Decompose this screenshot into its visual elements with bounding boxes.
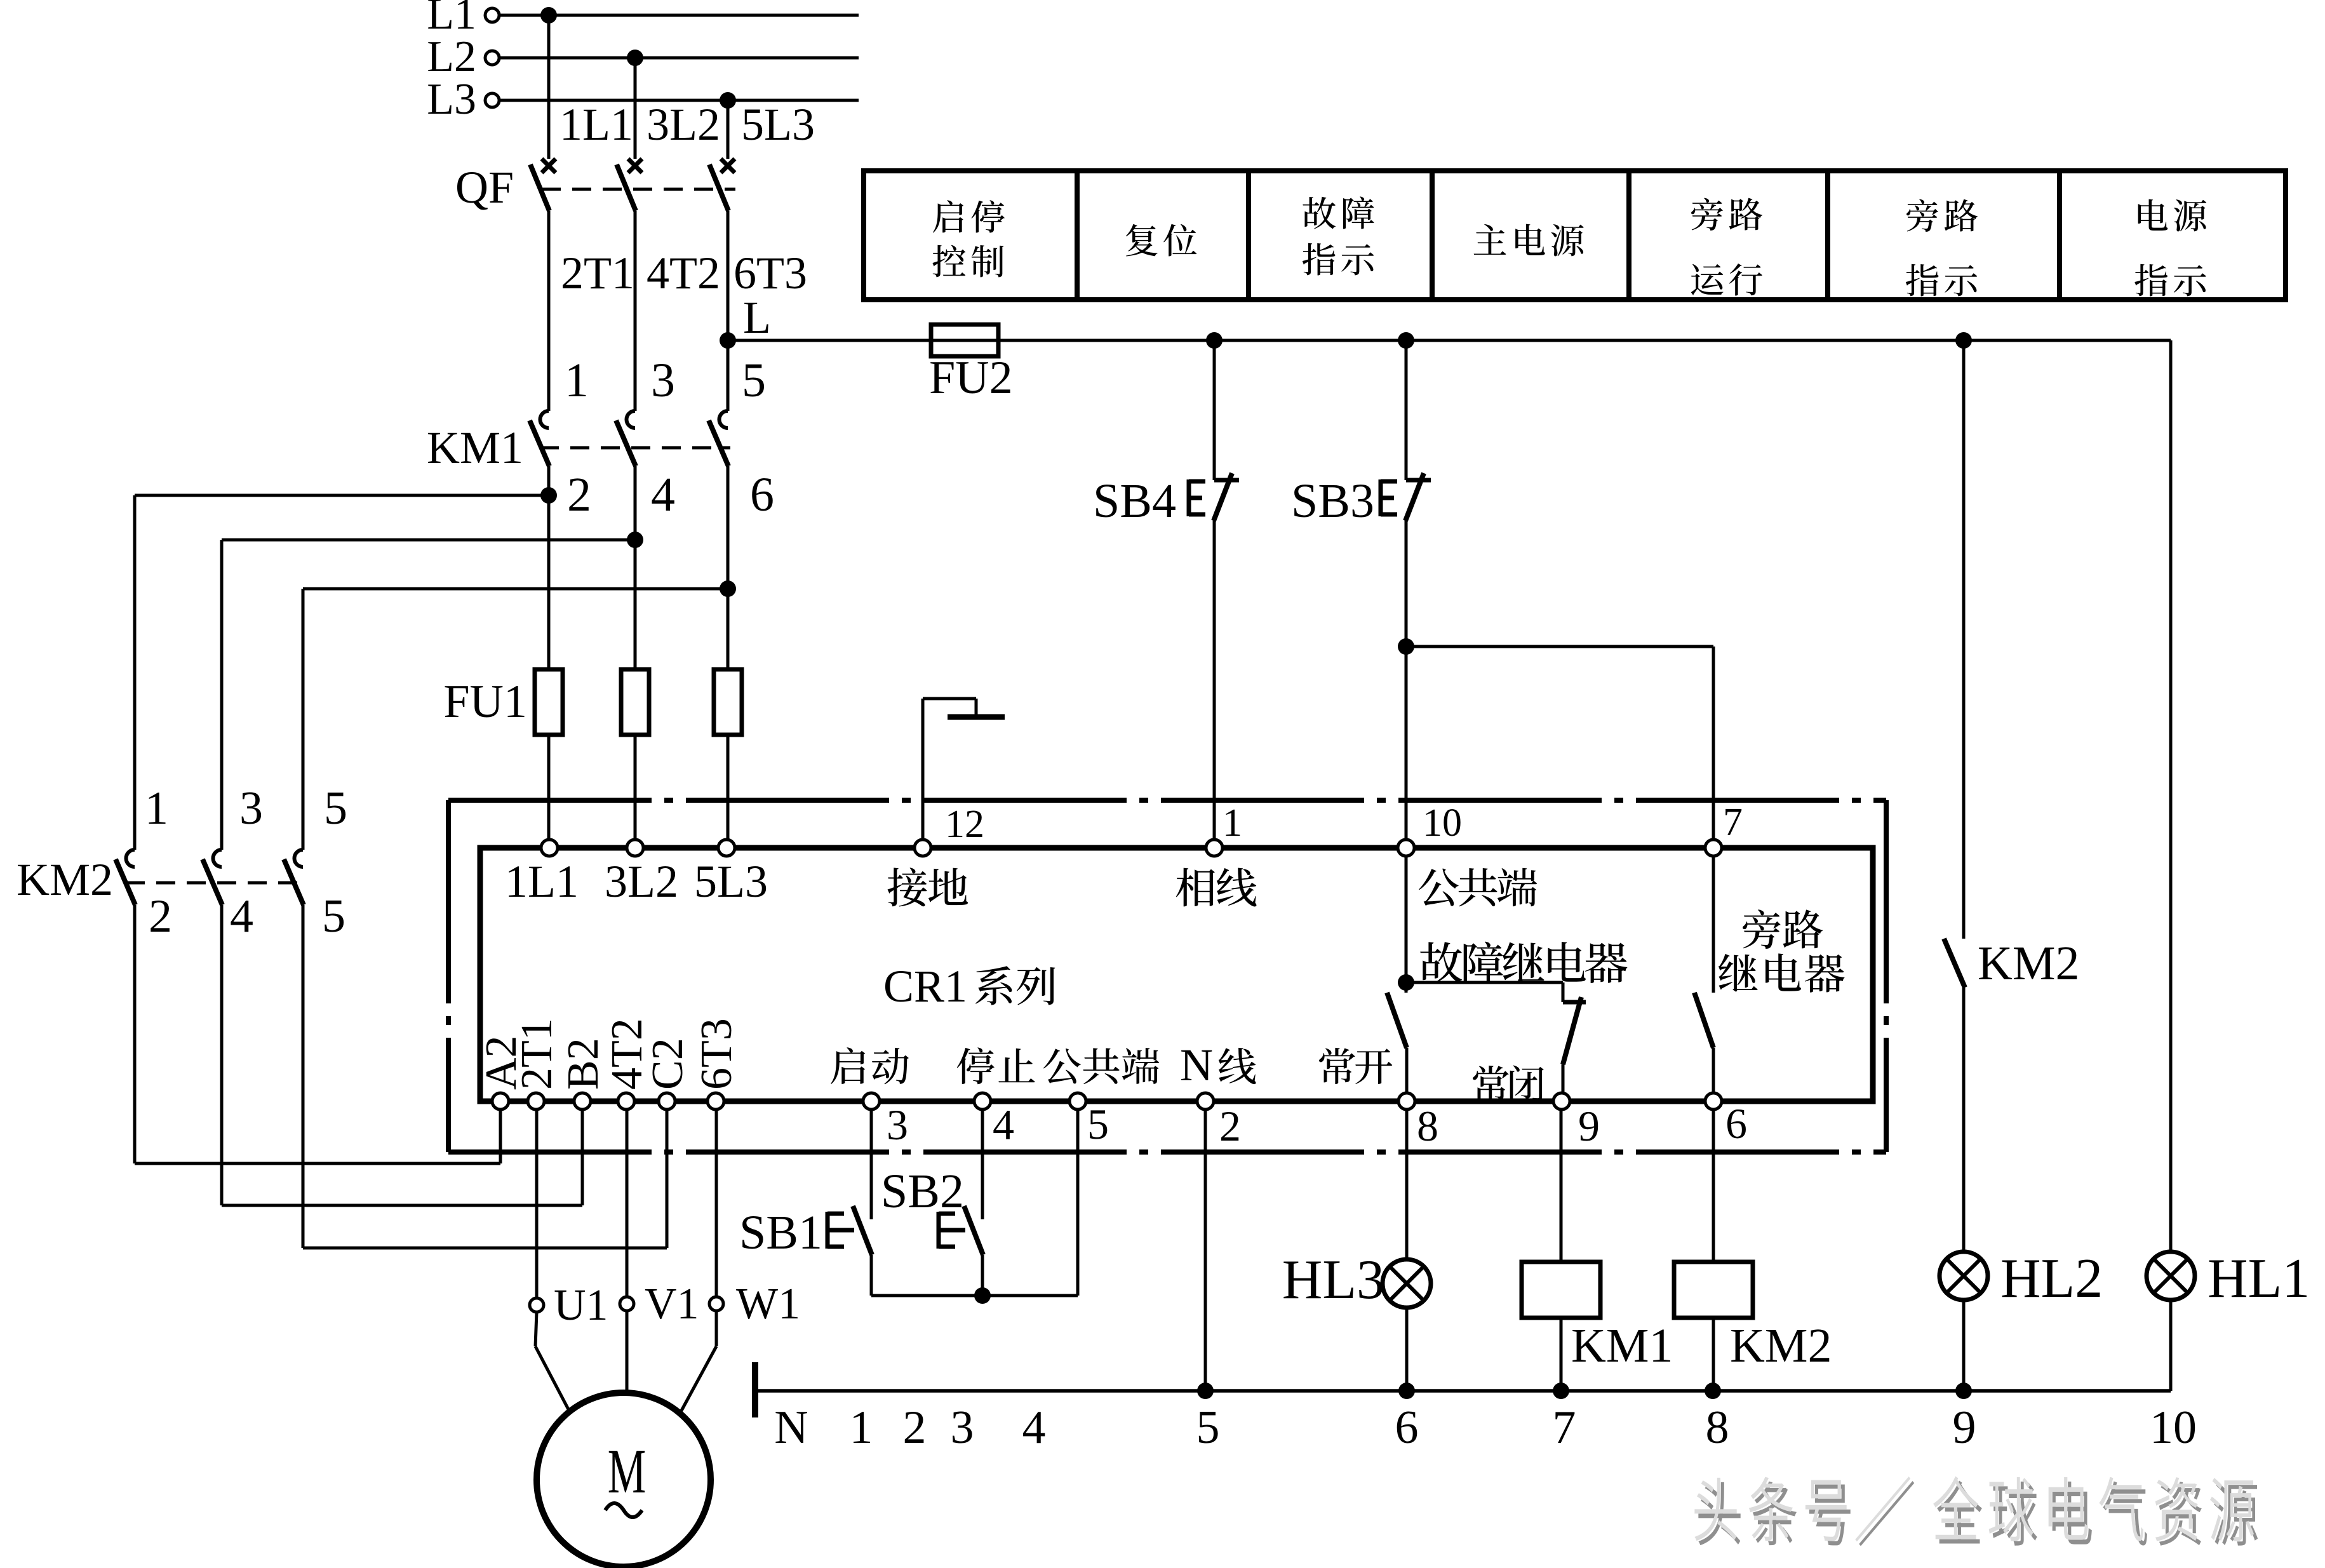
svg-text:FU2: FU2	[929, 352, 1013, 404]
junction SB2/SB1 common	[974, 1287, 991, 1304]
ground (earth) connection of pin 12	[921, 699, 925, 840]
wire KM2 pole1 feed	[133, 495, 137, 850]
svg-text:1L1: 1L1	[559, 99, 633, 150]
wire to pin 6	[1712, 1048, 1715, 1093]
svg-text:9: 9	[1578, 1102, 1600, 1150]
junction phase A to KM2 branch	[540, 487, 557, 504]
wire KM2 pole2 feed	[220, 540, 224, 850]
wire N bus	[757, 1389, 2171, 1393]
wire phase C QF to KM1	[727, 211, 730, 411]
svg-text:2T1: 2T1	[561, 248, 634, 298]
svg-text:3: 3	[651, 354, 675, 407]
svg-text:1: 1	[850, 1402, 873, 1454]
wire phase A KM1 to FU1	[547, 466, 551, 669]
fault relay NO contact	[1387, 993, 1407, 1048]
breaker QF pole 3	[721, 159, 735, 173]
svg-text:2T1: 2T1	[513, 1018, 561, 1090]
pin label 故障继电器	[1420, 942, 1627, 983]
svg-text:1L1: 1L1	[505, 856, 579, 907]
junction N pin2	[1197, 1383, 1214, 1399]
junction N KM2 coil	[1705, 1383, 1721, 1399]
fuse FU2	[931, 325, 998, 356]
junction N HL2	[1955, 1383, 1972, 1399]
wire HL2 to N bus	[1962, 1299, 1966, 1391]
pin 1L1 terminal	[541, 840, 558, 856]
wire B2 out	[581, 1110, 584, 1205]
svg-text:5: 5	[1196, 1402, 1220, 1454]
svg-text:7: 7	[1553, 1402, 1576, 1454]
contact KM2 auxiliary	[1944, 939, 1965, 988]
svg-text:CR1: CR1	[883, 961, 967, 1012]
pin label 启动	[831, 1047, 909, 1084]
junction L1 tap	[540, 7, 557, 23]
node L1 supply terminal	[485, 8, 499, 22]
pin label 公共端(bottom)	[1043, 1048, 1159, 1084]
wire SB2 out	[981, 1255, 984, 1296]
wire KM2 pole1 out	[133, 905, 137, 1163]
pin 6T3 terminal	[707, 1093, 724, 1109]
svg-text:HL2: HL2	[2000, 1248, 2103, 1310]
junction HL2 branch tap	[1955, 332, 1972, 349]
wire KM2 coil to N bus	[1712, 1318, 1715, 1391]
pin 10 terminal	[1398, 840, 1414, 856]
svg-text:5L3: 5L3	[741, 99, 815, 150]
svg-text:KM1: KM1	[1571, 1319, 1673, 1372]
svg-text:N: N	[1180, 1040, 1213, 1090]
svg-text:4: 4	[993, 1101, 1014, 1149]
svg-text:8: 8	[1706, 1402, 1729, 1454]
wire pin7 internal	[1712, 856, 1715, 993]
pin label 公共端	[1419, 868, 1537, 907]
svg-text:7: 7	[1723, 801, 1743, 844]
wire phase A drop to QF	[547, 15, 551, 159]
wire control feed down right	[2169, 340, 2173, 1252]
legend cell 复位	[1126, 224, 1196, 257]
contactor KM1 linkage	[540, 446, 730, 450]
wire phase C FU1 to CR1	[727, 735, 730, 840]
legend divider 3	[1430, 171, 1435, 300]
svg-text:8: 8	[1417, 1102, 1438, 1150]
wire control feed L	[728, 339, 2171, 342]
wire HL3 to N bus	[1405, 1307, 1409, 1391]
wire phase B KM1 to FU1	[634, 466, 637, 669]
wire SB4 to pin1	[1213, 519, 1216, 840]
wire W1 to motor	[715, 1311, 718, 1346]
svg-text:5: 5	[324, 782, 347, 834]
wire KM2 pole3 feed	[302, 589, 305, 850]
wire to pin 8	[1405, 1048, 1409, 1093]
svg-text:U1: U1	[554, 1281, 608, 1330]
svg-text:2: 2	[149, 890, 172, 942]
pin 7 terminal	[1705, 840, 1722, 856]
svg-text:M: M	[608, 1437, 646, 1506]
breaker QF linkage	[542, 188, 735, 191]
pushbutton SB3	[1405, 340, 1408, 480]
wire phase A QF to KM1	[547, 211, 551, 411]
wire pin8 to HL3	[1405, 1110, 1409, 1260]
motor M	[537, 1393, 711, 1567]
wire phase C KM1 to FU1	[727, 466, 730, 669]
wire pin10 internal	[1405, 856, 1408, 993]
wire KM2 aux to HL2	[1962, 988, 1966, 1252]
svg-text:QF: QF	[455, 162, 514, 213]
pushbutton SB1	[853, 1206, 872, 1255]
fuse FU1 pole 2	[621, 669, 649, 735]
wire HL1 to N bus	[2169, 1299, 2173, 1391]
pin 5 terminal	[1069, 1093, 1086, 1109]
wire phase B FU1 to CR1	[634, 735, 637, 840]
contactor KM1 pole 3	[720, 411, 728, 428]
wire fault relay NC branch	[1406, 981, 1563, 984]
watermark 头条号/全球电气资源	[1698, 1481, 2258, 1546]
fuse FU1 pole 3	[714, 669, 742, 735]
lamp HL3	[1383, 1259, 1431, 1308]
svg-text:6: 6	[1725, 1099, 1747, 1148]
svg-text:5: 5	[1087, 1100, 1109, 1148]
wire to pin 9	[1562, 1064, 1565, 1093]
legend divider 5	[1825, 171, 1830, 300]
svg-text:3: 3	[239, 782, 263, 834]
node W1 terminal	[709, 1297, 723, 1311]
pin B2 terminal	[574, 1093, 591, 1109]
pin 9 terminal	[1553, 1093, 1570, 1109]
junction phase B to KM2 branch	[627, 532, 643, 548]
junction L2 tap	[627, 50, 643, 66]
soft starter CR1 enclosure (dash-dot)	[448, 798, 1886, 803]
svg-text:B2: B2	[559, 1038, 608, 1090]
node L2 supply terminal	[485, 51, 499, 65]
junction fault relay common	[1398, 974, 1414, 991]
junction pin7 branch	[1398, 638, 1414, 655]
svg-text:6: 6	[750, 468, 774, 521]
legend divider 1	[1075, 171, 1080, 300]
wire branch A to KM2	[135, 494, 549, 497]
svg-text:KM2: KM2	[17, 854, 113, 905]
svg-text:6T3: 6T3	[692, 1018, 741, 1090]
junction SB3 tap	[1398, 332, 1414, 349]
pin 4 terminal	[974, 1093, 991, 1109]
wire phase B QF to KM1	[634, 211, 637, 411]
contactor KM2 linkage	[126, 881, 305, 885]
wire SB3 to pin10	[1405, 519, 1408, 840]
svg-text:V1: V1	[645, 1280, 699, 1329]
contactor KM1 pole 1	[540, 411, 549, 428]
pin label 常开	[1319, 1048, 1392, 1084]
svg-text:N: N	[774, 1402, 808, 1454]
svg-text:2: 2	[1219, 1102, 1241, 1150]
pin label 常闭	[1473, 1065, 1544, 1102]
svg-text:5: 5	[322, 890, 345, 942]
svg-text:4: 4	[651, 468, 675, 521]
wire A2 out	[499, 1110, 502, 1163]
fuse FU1 pole 1	[535, 669, 563, 735]
wire pin3 to SB1	[870, 1110, 873, 1219]
wire KM2 pole2 out	[220, 905, 224, 1205]
breaker QF pole 2	[628, 159, 642, 173]
svg-text:9: 9	[1953, 1402, 1976, 1454]
svg-text:SB1: SB1	[739, 1206, 822, 1259]
pin label 停止	[957, 1047, 1035, 1084]
legend cell 主电源	[1474, 224, 1584, 257]
node V1 terminal	[620, 1297, 634, 1311]
svg-text:1: 1	[565, 354, 589, 407]
legend divider 6	[2057, 171, 2062, 300]
svg-text:HL1: HL1	[2208, 1248, 2310, 1310]
legend divider 2	[1246, 171, 1251, 300]
svg-text:KM1: KM1	[427, 422, 523, 473]
svg-text:3L2: 3L2	[647, 99, 720, 150]
wire U1 to motor	[535, 1312, 537, 1346]
wire KM2 pole3 out	[302, 905, 305, 1248]
svg-text:10: 10	[2150, 1402, 2197, 1454]
wire pin4 to SB2	[981, 1110, 984, 1219]
wire L3 rail	[499, 99, 859, 102]
svg-text:SB4: SB4	[1093, 474, 1176, 528]
pin 6 terminal	[1705, 1093, 1722, 1109]
svg-text:L: L	[743, 292, 771, 343]
wire pin6 to KM2 coil	[1712, 1110, 1715, 1262]
svg-text:C2: C2	[643, 1038, 692, 1090]
wire 6T3 to W1	[715, 1110, 718, 1297]
fault relay NC contact	[1563, 1000, 1586, 1005]
pushbutton SB2	[964, 1206, 983, 1255]
contactor KM2 pole 1	[126, 850, 135, 867]
coil KM1	[1522, 1262, 1600, 1318]
svg-text:L3: L3	[427, 75, 476, 124]
wire branch B to KM2	[222, 539, 635, 542]
svg-text:1: 1	[145, 782, 168, 834]
breaker QF pole 1	[542, 159, 556, 173]
bypass relay NO contact	[1694, 993, 1713, 1048]
pin 5L3 terminal	[718, 840, 735, 856]
coil KM2	[1674, 1262, 1753, 1318]
pin 3 terminal	[863, 1093, 880, 1109]
wire 4T2 to V1	[626, 1110, 629, 1297]
wire SB1 out	[870, 1255, 873, 1296]
node U1 terminal	[530, 1298, 544, 1312]
svg-text:KM2: KM2	[1978, 937, 2079, 990]
svg-text:5L3: 5L3	[694, 856, 768, 907]
contactor KM1 pole 2	[627, 411, 636, 428]
pin 12 terminal	[915, 840, 931, 856]
svg-text:2: 2	[903, 1402, 927, 1454]
node L3 supply terminal	[485, 93, 499, 107]
junction phase C to KM2 branch	[720, 580, 736, 597]
wire C2 out	[666, 1110, 669, 1248]
svg-text:4: 4	[1022, 1402, 1046, 1454]
svg-text:3: 3	[951, 1402, 974, 1454]
lamp HL1	[2147, 1252, 2195, 1300]
legend cell 旁路指示	[1906, 199, 1978, 232]
pin 2T1 terminal	[528, 1093, 544, 1109]
pin label 旁路继电器	[1743, 909, 1823, 949]
pin 2 terminal	[1197, 1093, 1214, 1109]
pin 1 terminal	[1206, 840, 1223, 856]
legend cell 旁路运行	[1691, 198, 1762, 231]
contactor KM2 pole 2	[213, 850, 222, 867]
pushbutton SB4	[1213, 340, 1216, 480]
node N terminal bar	[752, 1362, 758, 1417]
contactor KM2 pole 3	[294, 850, 303, 867]
wire branch to pin7	[1406, 645, 1713, 648]
wire phase A FU1 to CR1	[547, 735, 551, 840]
svg-text:4T2: 4T2	[647, 248, 720, 298]
soft starter CR1 body	[480, 848, 1873, 1101]
wire L1 rail	[499, 14, 859, 17]
svg-text:1: 1	[1223, 801, 1242, 845]
svg-text:SB3: SB3	[1291, 474, 1374, 528]
legend cell 故障指示	[1303, 196, 1374, 229]
svg-text:6: 6	[1395, 1402, 1419, 1454]
svg-text:HL3: HL3	[1282, 1249, 1384, 1311]
svg-text:SB2: SB2	[881, 1165, 964, 1218]
junction N KM1 coil	[1553, 1383, 1569, 1399]
legend table frame	[864, 171, 2286, 300]
pin 3L2 terminal	[627, 840, 643, 856]
svg-text:KM2: KM2	[1730, 1319, 1832, 1372]
junction SB4 tap	[1206, 332, 1223, 349]
legend divider 4	[1626, 171, 1632, 300]
wire pin9 to KM1 coil	[1560, 1110, 1563, 1262]
pin C2 terminal	[659, 1093, 675, 1109]
wire V1 to motor	[626, 1311, 629, 1393]
pin A2 terminal	[492, 1093, 509, 1109]
svg-text:10: 10	[1423, 801, 1462, 845]
svg-text:3: 3	[887, 1101, 908, 1149]
wire pin5 down	[1076, 1110, 1080, 1296]
pin 4T2 terminal	[618, 1093, 634, 1109]
wire KM1 coil to N bus	[1560, 1318, 1563, 1391]
svg-text:12: 12	[945, 803, 984, 846]
svg-text:5: 5	[742, 354, 766, 407]
wire pin2 to N bus	[1204, 1110, 1207, 1391]
wire phase B drop to QF	[634, 58, 637, 159]
pin label 相线	[1176, 868, 1257, 906]
svg-text:3L2: 3L2	[605, 856, 678, 907]
svg-text:4: 4	[230, 890, 253, 942]
svg-text:FU1: FU1	[443, 676, 527, 728]
legend cell 电源指示	[2138, 199, 2207, 232]
wire HL2 branch down	[1962, 340, 1966, 939]
pin 8 terminal	[1398, 1093, 1415, 1109]
legend cell 启停控制	[933, 200, 1005, 232]
svg-text:2: 2	[567, 468, 591, 521]
wire 2T1 to U1	[535, 1110, 539, 1298]
svg-text:L2: L2	[427, 32, 476, 81]
svg-text:W1: W1	[736, 1280, 800, 1329]
lamp HL2	[1940, 1252, 1988, 1300]
pin label 接地	[888, 868, 968, 906]
junction L3 tap	[720, 92, 736, 109]
wire branch C to KM2	[303, 587, 728, 591]
wire phase C drop to QF	[727, 100, 730, 159]
wire L2 rail	[499, 57, 859, 60]
junction N HL3	[1398, 1383, 1415, 1399]
svg-text:6T3: 6T3	[734, 248, 807, 298]
